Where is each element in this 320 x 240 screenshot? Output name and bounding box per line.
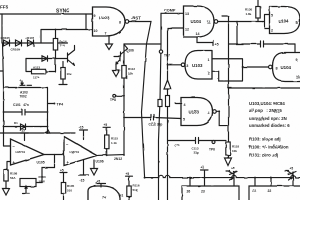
resistor R114 — [53, 39, 57, 51]
wire diode D108 row — [26, 58, 68, 60]
ground Q106 emitter — [113, 64, 120, 77]
capacitor C112 — [151, 115, 154, 121]
wire A113 right — [46, 71, 56, 73]
diode CR105 — [4, 40, 10, 46]
wire Q106 collector — [125, 45, 128, 49]
wire feedback loop — [36, 155, 55, 183]
gate U103a NAND — [93, 7, 126, 36]
wire vertical pin12 line — [167, 28, 169, 200]
transistor Q105 — [68, 50, 75, 66]
capacitor C113 — [196, 138, 199, 144]
wire capacitor C115 row — [229, 43, 296, 45]
wire vertical RST left branch — [123, 44, 125, 155]
resistor R112 on line — [122, 66, 126, 79]
wire U104a output — [218, 21, 265, 23]
node junction output — [123, 154, 125, 156]
wire Q105 collector — [74, 46, 76, 51]
wire SYNC horizontal — [0, 13, 93, 15]
wire vertical right rail — [222, 16, 229, 142]
wire U103a pin7 — [108, 36, 110, 44]
wire COMP to pin13 — [161, 12, 184, 14]
IC box bottom left — [182, 186, 239, 200]
wire input bracket U103a — [85, 14, 87, 30]
wire opamp1 plus input — [7, 162, 11, 171]
test point TP4 — [48, 103, 54, 105]
diode CR107 — [28, 40, 34, 46]
node junction U105 out — [167, 64, 169, 66]
node pins box1 — [189, 177, 191, 179]
wire feedback rail y133 — [0, 132, 75, 134]
capacitor C115 — [261, 41, 264, 47]
IC box bottom right — [249, 186, 300, 200]
op-amp U106 LM741 — [64, 137, 97, 166]
wire opamp1 minus input — [4, 145, 11, 147]
node junction diode wire — [55, 58, 57, 60]
test point TP8 — [113, 94, 116, 97]
node junction U104c input — [242, 66, 244, 68]
transistor A103 7002 — [4, 81, 48, 88]
wire diode row — [2, 42, 68, 44]
wire left rail — [3, 88, 5, 147]
gate U104b NAND — [270, 7, 301, 34]
wire U104c input — [243, 66, 269, 68]
ground R113 — [59, 79, 67, 85]
wire R114 lead — [55, 30, 57, 39]
ground R108 — [3, 181, 10, 195]
arrow up symbol — [164, 80, 171, 89]
test point TP6 — [212, 141, 215, 144]
gate U104c NAND mirrored — [273, 53, 301, 82]
wire pin4 stub — [175, 102, 181, 104]
gate U105 NAND mirrored — [185, 51, 212, 80]
arrow down right rail — [225, 155, 232, 166]
wire left rail top — [1, 14, 3, 43]
wire diode to pin10 — [41, 30, 93, 44]
wire U105 output to vertical — [168, 64, 182, 66]
wire gateA pin1 to U104c — [212, 59, 243, 81]
resistor on COMP line — [158, 100, 162, 107]
transistor Q106 — [114, 49, 128, 65]
ground U103a — [106, 44, 113, 50]
wire opamp2 output — [97, 154, 124, 157]
node junction bus left — [144, 177, 146, 179]
wire cap right down — [294, 44, 296, 52]
ground op-amp2 — [91, 160, 98, 175]
power -15 op-amp2 — [79, 160, 89, 176]
wire right rail x47.5 — [47, 88, 49, 134]
diode CR106 — [16, 40, 22, 46]
paper noise — [0, 0, 300, 200]
diode D108 — [42, 56, 48, 61]
wire U104a pin14 to +5 — [197, 37, 213, 43]
wire mid right horizontal — [228, 87, 300, 89]
gate U106 bottom — [88, 186, 120, 200]
node junction x237 — [236, 21, 238, 23]
gate U104a NAND — [184, 6, 215, 37]
wire -RST output — [129, 22, 151, 45]
resistor R130 — [257, 0, 259, 7]
power +5 pin14 — [212, 40, 214, 46]
notes text block — [249, 101, 290, 158]
wire vertical COMP line — [159, 13, 162, 200]
wire bracket U104b — [265, 15, 270, 29]
resistor on pin12 line — [166, 96, 170, 107]
wire R114 bottom — [55, 50, 57, 72]
node junction cap line — [141, 117, 143, 119]
wire A113 left — [26, 59, 32, 72]
resistor A113 117k — [32, 69, 46, 74]
resistor R116 — [127, 186, 131, 197]
node junction left — [3, 132, 5, 134]
wire cap C112 row to pin5 — [124, 118, 181, 119]
wire cap C113 row — [168, 140, 227, 142]
node rung junctions — [3, 111, 5, 113]
node pins box2 — [254, 177, 256, 179]
wire opamp1 output — [44, 154, 64, 156]
resistor R115 — [105, 135, 109, 149]
wire RST split — [124, 43, 161, 45]
wire U103b output — [216, 110, 219, 112]
node junction right arrow — [47, 132, 49, 134]
test point TP7 — [159, 50, 162, 53]
op-amp U105 LM741 — [11, 139, 45, 165]
wire RST line down to bus — [142, 44, 147, 178]
wire junction down — [236, 22, 238, 44]
wire pin12 stub — [168, 27, 184, 29]
resistor R108 53A — [4, 170, 8, 181]
resistor R113 10k — [62, 62, 64, 68]
gate U103b NAND — [181, 98, 213, 126]
resistor R110 on right rail — [226, 142, 230, 155]
node junction R114 top — [55, 29, 57, 31]
wire left rail mid — [0, 43, 4, 88]
diode D101 — [4, 124, 48, 130]
wire bottom bus — [145, 175, 300, 177]
